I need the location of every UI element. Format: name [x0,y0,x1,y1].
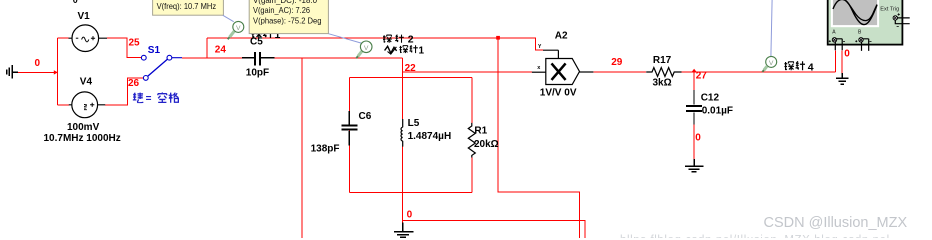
switch S1 lever [148,59,168,76]
A2 x input lead [532,71,546,73]
wire V4 to node 26 to switch bottom contact [105,78,143,105]
svg-text:V1: V1 [78,11,91,22]
wire input bus vertical [57,38,59,105]
capacitor C5 [242,52,275,65]
terminal A [832,38,836,42]
svg-text:25: 25 [129,37,141,48]
wire tank bottom edge [349,191,472,193]
svg-text:V: V [364,45,369,52]
svg-text:1V/V 0V: 1V/V 0V [540,87,577,98]
wire bus to V4 [58,104,69,106]
probe 1 name label (under tooltip box) [252,28,274,38]
wire ground rail to bottom right [403,221,586,238]
resistor R17 [646,68,681,77]
junction dot on top rail at step net [496,36,500,40]
wire bus to V1 [58,37,69,39]
wire node 22 to A2 x input [403,71,532,73]
svg-text:Ext Trig: Ext Trig [880,7,899,13]
svg-text:hllps flblog.csdn.nel/Illusion: hllps flblog.csdn.nel/Illusion_MZX hlog.… [620,235,890,239]
terminal B +/- marks [855,40,871,42]
svg-text:C6: C6 [359,111,372,122]
svg-text:V(phase): -75.2 Deg: V(phase): -75.2 Deg [253,17,322,26]
tooltip box probe 1 [153,0,224,15]
svg-text:=: = [146,94,152,105]
svg-text:L5: L5 [408,118,420,129]
svg-text:26: 26 [128,78,140,89]
wire tank right R1 branch [471,78,473,193]
probe 2 icon [356,41,372,58]
junction at node 27 [691,69,696,73]
wire switch common to C5 (node 24) [182,57,242,59]
svg-text:R17: R17 [653,55,672,66]
oscilloscope waveform A [833,0,877,25]
wire C5 right to node 22 [275,57,403,59]
probe 2 sub label [399,45,417,53]
tooltip box probe 2 [249,0,328,34]
wire L5 branch lower [402,147,404,193]
svg-text:V(gain_AC): 7.26: V(gain_AC): 7.26 [253,6,310,15]
switch S1 contacts [141,55,171,80]
wire tank left C6 branch [348,78,350,193]
capacitor C6 [342,111,358,146]
svg-text:0: 0 [844,49,850,60]
oscilloscope screen [833,0,877,25]
capacitor C12 [686,90,702,125]
svg-text:10pF: 10pF [246,67,269,78]
svg-text:0: 0 [695,132,701,143]
svg-text:C5: C5 [250,37,263,48]
wire C12 to ground 0 [693,112,695,159]
ext trig leads [895,18,909,24]
svg-text:3kΩ: 3kΩ [653,78,672,89]
probe 2 name label [383,35,404,43]
junction at input bus [54,70,58,74]
svg-text:A2: A2 [555,31,568,42]
blue callout line probe 2 [329,34,362,43]
svg-text:C12: C12 [701,93,720,104]
blue callout line probe 4 [771,0,772,56]
wire V1 to node 25 to switch top contact [107,38,141,58]
svg-text:0: 0 [73,0,78,5]
wire ground to bus [18,71,58,73]
A2 output lead [580,71,594,73]
source V1 [69,25,108,52]
svg-text:138pF: 138pF [311,144,340,155]
switch common blue stub [172,57,182,59]
svg-text:1: 1 [419,45,425,56]
resistor R1 [468,123,475,158]
svg-text:0: 0 [407,210,413,221]
label key = space (blue CJK) [133,92,179,102]
terminal A +/- marks [829,40,845,42]
ext trig terminal [893,16,897,20]
svg-text:2: 2 [408,33,414,45]
ground symbol scope [836,73,849,84]
svg-text:24: 24 [215,45,227,56]
svg-text:R1: R1 [474,125,487,136]
svg-text:1.4874µH: 1.4874µH [408,131,452,142]
wire top rail to A2 Y corner [207,38,543,50]
wire node 22 down into tank / L5 branch [402,58,404,119]
svg-text:22: 22 [405,63,417,74]
terminal B [859,38,863,42]
svg-text:CSDN @Illusion_MZX: CSDN @Illusion_MZX [764,215,908,231]
svg-text:V(freq): 10.7 MHz: V(freq): 10.7 MHz [157,2,217,11]
probe 2 sub check [388,47,397,54]
blue callout line probe 1 [223,15,234,21]
oscilloscope waveform B [846,1,878,21]
oscilloscope XSC body [828,0,903,45]
wire scope A+ down to signal [834,50,836,72]
terminal B leads [862,39,869,51]
wire vertical branch at x=302 going down [301,58,303,238]
svg-text:20kΩ: 20kΩ [474,139,499,150]
ground symbol C12 [685,159,703,172]
probe 4 icon [762,56,776,72]
svg-text:10.7MHz 1000Hz: 10.7MHz 1000Hz [44,133,121,144]
svg-text:29: 29 [611,57,623,68]
ground symbol input left (rotated) [7,65,18,79]
wire top rail node 24 vertical [206,38,208,58]
inductor L5 [401,119,403,147]
ground symbol under tank [394,222,413,237]
wire A2 output node 29 [593,71,646,73]
A2 X glyph [552,63,566,80]
svg-text:100mV: 100mV [67,122,100,133]
svg-text:S1: S1 [148,45,161,56]
ext trig +/- marks [897,13,900,26]
probe 2 sub waveform icon [385,46,397,53]
svg-text:V(gain_DC): -18.0: V(gain_DC): -18.0 [253,0,317,5]
WIRES-AND-COMPONENTS [18,38,843,238]
svg-text:V4: V4 [80,77,93,88]
wire node 27 down to C12 [693,72,695,90]
svg-text:FM: FM [83,104,88,111]
A2 y input lead [543,50,558,58]
wire tank to ground 0 [402,192,404,222]
svg-text:0.01µF: 0.01µF [702,106,733,117]
probe 4 name label [784,61,805,70]
wire R17 to scope (nodes 27) [682,71,836,73]
svg-text:4: 4 [808,62,814,74]
svg-text:0: 0 [35,58,41,69]
probe 1 icon [228,21,244,39]
wire step net from top rail down [498,38,580,238]
svg-text:V: V [769,60,774,67]
terminal A leads [835,39,842,51]
svg-text:V: V [236,25,241,32]
wire tank top edge [349,77,472,79]
oscilloscope screen frame [831,0,879,27]
svg-text:27: 27 [696,70,708,81]
wire scope A- down to ground [841,50,843,73]
source V4 (FM) [69,92,105,118]
multiplier A2 body [546,59,580,85]
